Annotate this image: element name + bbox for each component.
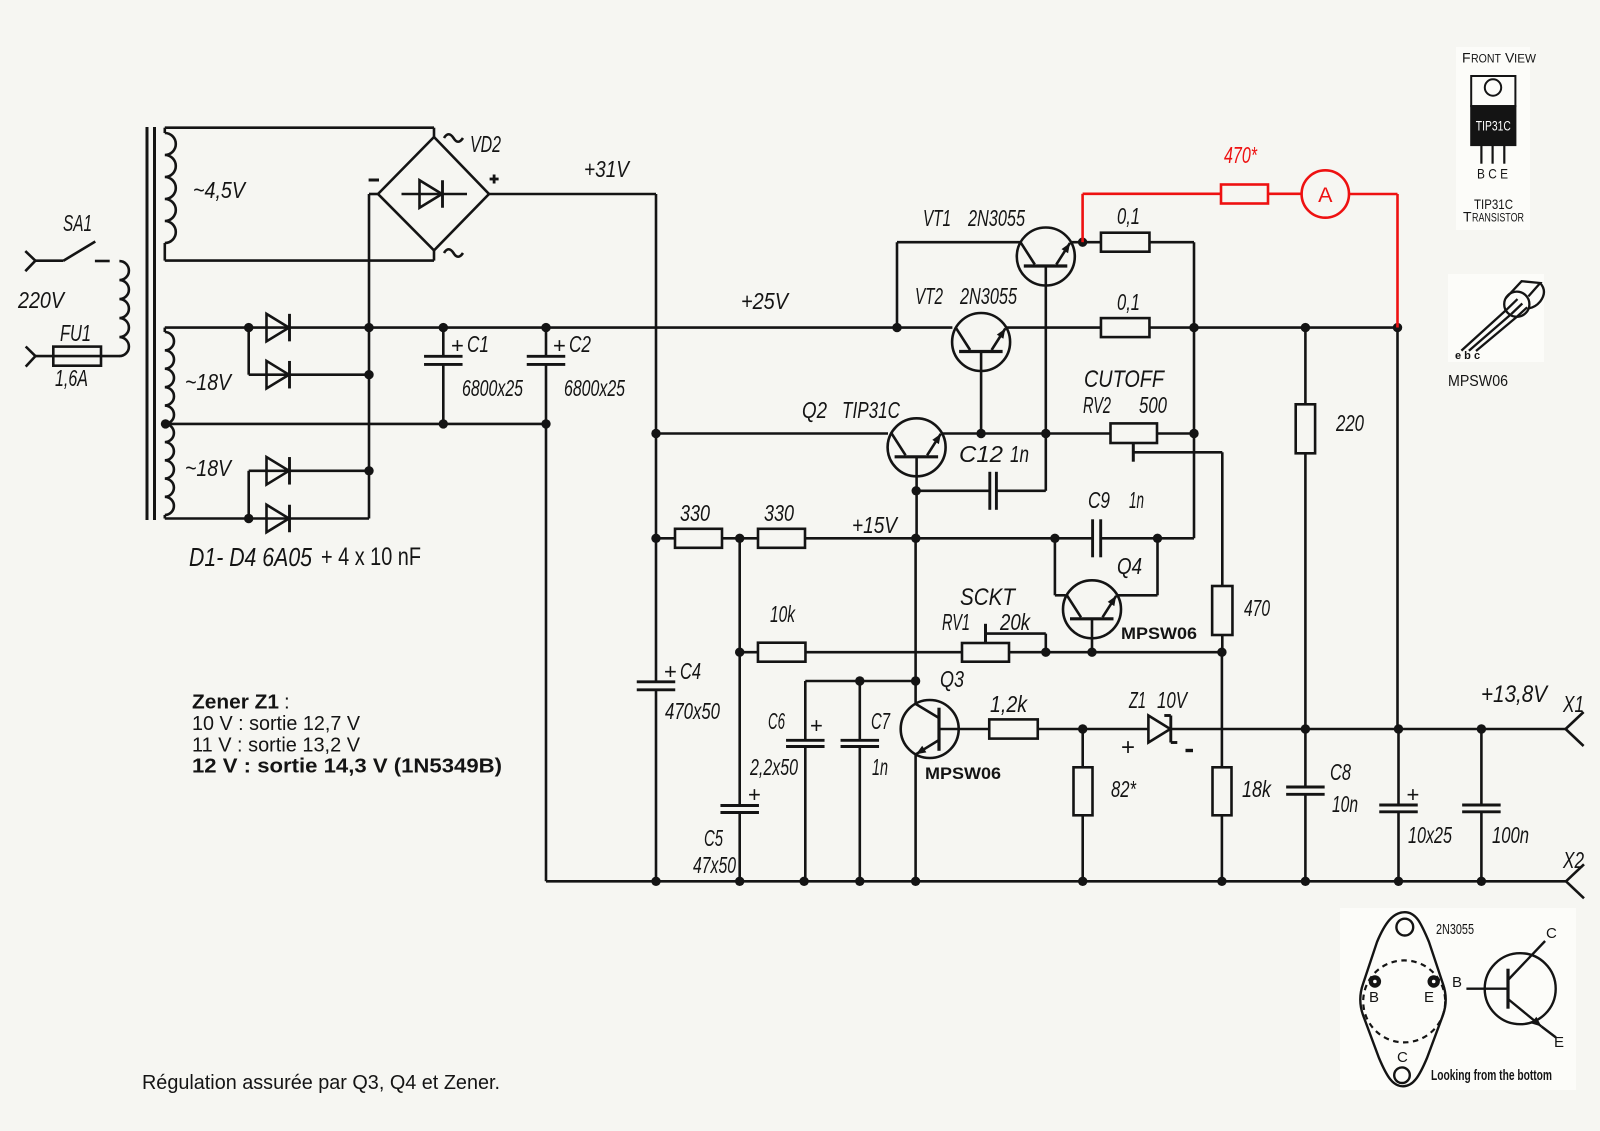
node: ground 18k <box>1217 877 1226 886</box>
wire: VT1 collector branch up/over <box>897 242 1021 327</box>
wire: VT1 base down <box>1045 266 1048 434</box>
label C8 <box>1330 759 1351 785</box>
node: ground 10x25 <box>1394 877 1403 886</box>
2N3055 mounting holes <box>1394 919 1413 1083</box>
transistor Q3 <box>901 700 989 758</box>
node: ground C4 <box>651 877 660 886</box>
svg-text:10k: 10k <box>770 601 796 627</box>
label 1,6A <box>55 365 88 391</box>
svg-text:X2: X2 <box>1562 847 1584 873</box>
node: ground Q3 emitter <box>911 877 920 886</box>
zener Z1 <box>1148 716 1177 743</box>
svg-text:e b c: e b c <box>1455 350 1480 362</box>
TIP31C legs <box>1481 145 1504 164</box>
label C12 value <box>1010 441 1029 467</box>
label 220 <box>1335 410 1364 436</box>
wire: 0,1 upper to rail <box>1150 242 1195 327</box>
node: C2 top <box>541 323 550 332</box>
label 220V <box>17 287 66 313</box>
svg-text:82*: 82* <box>1111 776 1137 802</box>
node: VT1 emitter / shunt <box>1078 238 1087 247</box>
wire: Q2 base column to Q3 <box>914 538 917 704</box>
wire: 1,2k to Z1 anode <box>1038 728 1148 731</box>
potentiometer RV2 500 <box>1111 423 1158 443</box>
label C2 <box>553 331 591 358</box>
label C6 plus <box>810 713 823 738</box>
node: Q2 base crossing <box>911 534 920 543</box>
capacitor C8 <box>1286 729 1325 881</box>
label CUTOFF <box>1084 366 1165 393</box>
svg-text:12 V : sortie 14,3 V (1N5349B): 12 V : sortie 14,3 V (1N5349B) <box>192 755 502 778</box>
label RV1 <box>942 609 970 635</box>
svg-text:C6: C6 <box>768 708 785 734</box>
svg-text:Looking from the bottom: Looking from the bottom <box>1431 1068 1552 1084</box>
svg-text:+: + <box>810 713 823 738</box>
wire: bridge minus vertical <box>369 194 378 519</box>
label C9 <box>1088 487 1110 513</box>
label pin E <box>1424 989 1434 1006</box>
label Z1 plus <box>1121 734 1135 761</box>
ammeter A <box>1302 170 1349 217</box>
svg-text:C7: C7 <box>871 708 891 734</box>
resistor 0,1 (VT1) <box>1101 233 1150 252</box>
resistor 330 (second) <box>758 529 805 548</box>
wire: RV1 right <box>1009 651 1222 654</box>
label 1,2k <box>990 691 1028 717</box>
node: D4 anode junction <box>244 514 253 523</box>
node: ammeter return <box>1393 323 1402 332</box>
node: C7 top <box>855 676 864 685</box>
svg-text:Q4: Q4 <box>1117 553 1142 579</box>
transformer secondary winding ~18V (upper) <box>165 328 174 424</box>
label Z1 value 10V <box>1157 687 1189 713</box>
node: 100n top <box>1477 724 1486 733</box>
svg-text:Q2: Q2 <box>802 397 827 423</box>
label symbol E <box>1554 1034 1564 1051</box>
label 470* <box>1224 142 1258 168</box>
transistor Q4 <box>1063 580 1121 638</box>
label FU1 <box>60 320 91 346</box>
label 10x25 <box>1408 822 1452 848</box>
note: zener table <box>192 691 502 778</box>
RV1 wiper <box>986 624 1046 652</box>
svg-text:+25V: +25V <box>741 288 790 314</box>
svg-text:RV1: RV1 <box>942 609 970 635</box>
terminal X1 <box>1566 712 1584 746</box>
svg-text:F: F <box>1462 50 1471 66</box>
terminal X2 <box>1566 864 1584 898</box>
wire: +31V to Q2 collector <box>656 432 888 435</box>
svg-text:C5: C5 <box>704 825 723 851</box>
svg-text:C4: C4 <box>680 658 701 684</box>
svg-text:~18V: ~18V <box>185 369 233 395</box>
label C2 value <box>564 375 625 401</box>
label Q3 <box>940 666 964 692</box>
svg-text:10x25: 10x25 <box>1408 822 1452 848</box>
svg-text:330: 330 <box>680 500 710 526</box>
label C6 value 2,2x50 <box>749 754 798 780</box>
svg-text:B: B <box>1452 974 1462 991</box>
red wire: VT1 emitter to 470* <box>1083 194 1221 242</box>
label 10k <box>770 601 796 627</box>
label MPSW06 caption <box>1448 373 1508 390</box>
svg-text:0,1: 0,1 <box>1117 289 1140 315</box>
diode D1 <box>249 314 369 342</box>
resistor 220 <box>1296 328 1315 729</box>
svg-text:C12: C12 <box>959 441 1003 467</box>
svg-text:47x50: 47x50 <box>693 852 736 878</box>
label RV1 value 20k <box>999 609 1031 635</box>
wire: VT2 base down <box>980 352 983 434</box>
2N3055 dashed circle <box>1363 960 1445 1042</box>
node: 220 top <box>1301 323 1310 332</box>
label FRONT VIEW <box>1462 50 1536 66</box>
svg-text:RONT: RONT <box>1471 54 1501 66</box>
wire: winding1 top to bridge <box>165 128 434 137</box>
svg-text:500: 500 <box>1139 392 1167 418</box>
svg-text:10 V : sortie 12,7 V: 10 V : sortie 12,7 V <box>192 712 360 735</box>
label SA1 <box>63 210 92 236</box>
label 330 first <box>680 500 710 526</box>
label symbol B <box>1452 974 1462 991</box>
resistor 82* <box>1074 729 1093 881</box>
resistor 330 (first) <box>656 529 722 548</box>
node: D3 cathode <box>364 466 373 475</box>
label VD2 <box>470 131 501 157</box>
wire: output rail +13,8V <box>1305 728 1565 731</box>
svg-text:VT1: VT1 <box>923 205 951 231</box>
resistor 1,2k <box>989 719 1038 738</box>
svg-text:~4,5V: ~4,5V <box>193 177 247 203</box>
label RV2 value 500 <box>1139 392 1167 418</box>
svg-text:470x50: 470x50 <box>665 698 720 724</box>
svg-text:C1: C1 <box>467 331 489 357</box>
wire: 10k to RV1 <box>806 651 963 654</box>
node: VT2 base junction <box>976 429 985 438</box>
svg-text:100n: 100n <box>1492 822 1529 848</box>
RV2 wiper <box>1133 443 1222 462</box>
2N3055 TO-3 outline <box>1360 912 1445 1086</box>
label C5 value 47x50 <box>693 852 736 878</box>
2N3055 pin B <box>1369 975 1381 987</box>
svg-text:10V: 10V <box>1157 687 1189 713</box>
label +25V <box>741 288 790 314</box>
svg-text:+: + <box>451 333 464 358</box>
svg-text:1,6A: 1,6A <box>55 365 88 391</box>
node: C9 right / Q4 emitter <box>1153 534 1162 543</box>
wire: Q4 base down <box>1091 619 1094 652</box>
inset background 2N3055 <box>1340 908 1576 1090</box>
svg-text:Zener Z1: Zener Z1 <box>192 691 279 714</box>
svg-text:C: C <box>1546 925 1557 942</box>
transformer secondary winding ~18V (lower) <box>165 424 174 519</box>
svg-text:+13,8V: +13,8V <box>1481 681 1549 708</box>
wire: Q2 base down <box>915 457 918 539</box>
capacitor C9 <box>1093 519 1158 557</box>
resistor 0,1 (VT2) <box>1101 318 1150 337</box>
label VT1 type 2N3055 <box>967 205 1025 231</box>
wire +31V <box>489 194 656 434</box>
bridge plus mark <box>490 175 499 184</box>
node: D2 cathode <box>364 370 373 379</box>
inset background TIP31C <box>1456 47 1530 230</box>
bridge ~ mark top <box>444 134 463 142</box>
node: C9 left / Q4 collector <box>1050 534 1059 543</box>
label C7 <box>871 708 891 734</box>
svg-text:Régulation assurée par Q3, Q4: Régulation assurée par Q3, Q4 et Zener. <box>142 1071 500 1094</box>
terminal: mains input top <box>25 251 35 271</box>
node: ground 82* <box>1078 877 1087 886</box>
wire: RV2 node down to C9 row <box>1158 434 1195 539</box>
switch SA1 <box>63 242 109 262</box>
svg-text:RANSISTOR: RANSISTOR <box>1472 213 1524 225</box>
svg-text:6800x25: 6800x25 <box>462 375 523 401</box>
capacitor C4 <box>637 682 676 882</box>
wire through fuse <box>35 355 119 358</box>
label C5 plus <box>748 782 761 807</box>
node: VT1 collector branch <box>892 323 901 332</box>
svg-text:RV2: RV2 <box>1083 392 1111 418</box>
node: ground C8 <box>1301 877 1310 886</box>
node: centre tap <box>161 419 170 428</box>
svg-text:470: 470 <box>1244 595 1270 621</box>
label +15V <box>852 512 899 538</box>
capacitor 10x25 <box>1379 729 1418 881</box>
wire: centre tap rail <box>165 423 546 426</box>
capacitor C1 <box>424 328 463 424</box>
resistor 470* (red) <box>1221 185 1268 204</box>
svg-text:18k: 18k <box>1242 776 1272 802</box>
svg-text:SCKT: SCKT <box>960 584 1017 611</box>
label Q4 <box>1117 553 1142 579</box>
wire: winding1 bottom to bridge <box>165 250 434 260</box>
wire: Q3 emitter down <box>914 755 917 882</box>
transistor VT2 <box>952 313 1010 371</box>
svg-text:C8: C8 <box>1330 759 1351 785</box>
capacitor C5 <box>720 806 759 882</box>
label C5 <box>704 825 723 851</box>
bridge ~ mark bottom <box>444 249 463 257</box>
capacitor C7 <box>841 740 880 881</box>
label B C E <box>1477 166 1508 182</box>
label SCKT <box>960 584 1017 611</box>
wire: VT1 emitter out <box>1070 241 1101 244</box>
svg-text:+31V: +31V <box>584 156 631 182</box>
transistor VT1 <box>1017 228 1075 286</box>
resistor 470 <box>1212 586 1232 652</box>
svg-text:FU1: FU1 <box>60 320 91 346</box>
capacitor C12 <box>916 472 1046 510</box>
wire: C12 to VT1 base line <box>1045 434 1048 491</box>
svg-text:C: C <box>1397 1049 1408 1066</box>
svg-text:IEW: IEW <box>1514 54 1536 66</box>
label C1 value <box>462 375 523 401</box>
svg-text:SA1: SA1 <box>63 210 92 236</box>
label C12 <box>959 441 1003 467</box>
label pin B <box>1369 989 1379 1006</box>
label 0,1 lower <box>1117 289 1140 315</box>
svg-text:2N3055: 2N3055 <box>1436 921 1474 938</box>
node: Z1 anode / 82* <box>1078 724 1087 733</box>
MPSW06 package <box>1461 281 1544 351</box>
wire <box>35 259 63 262</box>
node: C1 bottom <box>439 419 448 428</box>
node: 0,1 junction <box>1189 323 1198 332</box>
wire: winding2 top lead <box>165 326 249 329</box>
label +31V <box>584 156 631 182</box>
svg-text:2,2x50: 2,2x50 <box>749 754 798 780</box>
svg-text:10n: 10n <box>1332 791 1358 817</box>
label +13,8V <box>1481 681 1549 708</box>
capacitor C2 <box>527 328 566 882</box>
svg-text:1,2k: 1,2k <box>990 691 1028 717</box>
node: 10x25 top <box>1394 724 1403 733</box>
label 470 <box>1244 595 1270 621</box>
label D1-D4 <box>189 542 421 572</box>
label 330 second <box>764 500 794 526</box>
svg-text:VT2: VT2 <box>915 283 943 309</box>
wire: +31V column down <box>655 434 658 682</box>
TIP31C package tab <box>1471 76 1515 106</box>
capacitor C6 <box>786 740 825 881</box>
label TIP31C caption <box>1463 196 1524 225</box>
svg-text:470*: 470* <box>1224 142 1258 168</box>
transformer secondary winding ~4,5V <box>165 128 176 261</box>
label e b c <box>1455 350 1480 362</box>
svg-text:+15V: +15V <box>852 512 899 538</box>
node: ground C6 <box>799 877 808 886</box>
wire: D3-D4 anode link <box>247 471 250 519</box>
node: 470 bottom <box>1217 648 1226 657</box>
diode D2 <box>249 361 369 389</box>
svg-text:E: E <box>1554 1034 1564 1051</box>
svg-text:0,1: 0,1 <box>1117 203 1140 229</box>
wire: ground rail <box>546 880 1566 883</box>
label ~18V lower <box>185 455 233 481</box>
label Q3 type MPSW06 <box>925 765 1001 783</box>
wire: winding3 bottom lead <box>165 517 249 520</box>
svg-text:+: + <box>664 659 677 684</box>
label Q4 type MPSW06 <box>1121 625 1197 643</box>
bridge inner diode <box>402 180 468 208</box>
resistor 10k <box>740 643 806 662</box>
wire: between 330s <box>722 537 758 540</box>
2N3055 pin E <box>1428 975 1440 987</box>
svg-text:T: T <box>1463 209 1472 225</box>
svg-text:C9: C9 <box>1088 487 1110 513</box>
note: regulation <box>142 1071 500 1094</box>
svg-text:1n: 1n <box>1010 441 1029 467</box>
wire: 0,1 junction down to RV2 node <box>1193 328 1196 434</box>
svg-text:6800x25: 6800x25 <box>564 375 625 401</box>
label C1 <box>451 331 489 358</box>
label VT2 type 2N3055 <box>959 283 1017 309</box>
svg-text:Q3: Q3 <box>940 666 964 692</box>
label Q2 <box>802 397 827 423</box>
label 100n <box>1492 822 1529 848</box>
node: C1 top <box>439 323 448 332</box>
svg-text:CUTOFF: CUTOFF <box>1084 366 1165 393</box>
diode D3 <box>249 457 369 485</box>
label C7 value 1n <box>872 754 888 780</box>
node: D1 cathode <box>364 323 373 332</box>
node: RV2 right junction <box>1189 429 1198 438</box>
label ~18V upper <box>185 369 233 395</box>
wire: C6/C7 top row <box>805 681 915 740</box>
wire: wiper to 470 <box>1221 452 1224 586</box>
svg-text:11 V : sortie 13,2 V: 11 V : sortie 13,2 V <box>192 733 360 756</box>
terminal: mains input bottom <box>26 347 36 367</box>
label pin C <box>1397 1049 1408 1066</box>
node: RV1 out <box>1041 648 1050 657</box>
label VT1 <box>923 205 951 231</box>
svg-text:220: 220 <box>1335 410 1364 436</box>
svg-text:Z1: Z1 <box>1128 687 1146 713</box>
node: Q2 base / C12 <box>912 486 921 495</box>
svg-text:TIP31C: TIP31C <box>842 397 900 423</box>
potentiometer RV1 20k <box>962 643 1009 662</box>
node: ground 100n <box>1477 877 1486 886</box>
label VT2 <box>915 283 943 309</box>
label C4 <box>664 658 701 684</box>
label Z1 <box>1128 687 1146 713</box>
bridge minus mark <box>369 179 379 182</box>
wire: red branch return to output <box>1396 328 1399 729</box>
red wire: ammeter to rail <box>1349 194 1398 328</box>
resistor 18k <box>1213 652 1232 881</box>
node: 10k left <box>735 648 744 657</box>
svg-text:VD2: VD2 <box>470 131 501 157</box>
svg-text:+ 4 x 10 nF: + 4 x 10 nF <box>321 543 421 571</box>
wire: output rail right of 0,1 <box>1150 326 1398 329</box>
svg-text:330: 330 <box>764 500 794 526</box>
diode D4 <box>249 505 369 533</box>
wire: RV2 right <box>1157 432 1194 435</box>
node: ground C5 <box>735 877 744 886</box>
svg-text:E: E <box>1424 989 1434 1006</box>
wire: Q2 emitter to VT bases <box>942 432 1111 435</box>
node: C2 rail junction <box>541 419 550 428</box>
svg-text:MPSW06: MPSW06 <box>925 765 1001 783</box>
transistor Q2 <box>888 418 946 476</box>
node: C8 top <box>1301 724 1310 733</box>
svg-text:+: + <box>748 782 761 807</box>
TIP31C package body <box>1471 106 1515 145</box>
svg-text:X1: X1 <box>1562 691 1584 717</box>
wire: D1-D2 anode link <box>247 328 250 375</box>
transformer T1 primary winding <box>119 261 129 356</box>
wire: +15V rail <box>805 537 1093 540</box>
label X1 <box>1562 691 1584 717</box>
label ~4,5V <box>193 177 247 203</box>
node: ground C7 <box>855 877 864 886</box>
label Q2 type TIP31C <box>842 397 900 423</box>
capacitor 100n <box>1462 729 1501 881</box>
label Z1 minus <box>1186 749 1194 752</box>
label 82* <box>1111 776 1137 802</box>
svg-text:1n: 1n <box>872 754 888 780</box>
svg-text:2N3055: 2N3055 <box>959 283 1017 309</box>
wire: Q4 emitter to C9 right <box>1117 538 1158 595</box>
svg-text:2N3055: 2N3055 <box>967 205 1025 231</box>
label C8 value 10n <box>1332 791 1358 817</box>
svg-text:1n: 1n <box>1129 487 1144 513</box>
svg-text:220V: 220V <box>17 287 66 313</box>
svg-text:MPSW06: MPSW06 <box>1121 625 1197 643</box>
svg-text:B: B <box>1369 989 1379 1006</box>
2N3055 symbol <box>1466 941 1556 1038</box>
label 2N3055 caption <box>1436 921 1474 938</box>
